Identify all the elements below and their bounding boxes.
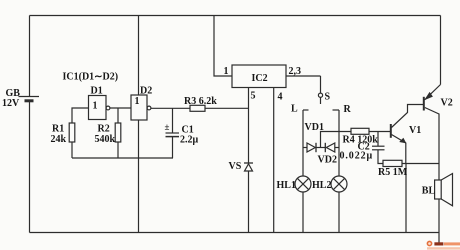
switch S [318,76,322,104]
wire below border watermark stub [438,233,440,246]
IC U2 box IC2 [232,65,286,88]
svg-text:0.022μ: 0.022μ [340,151,374,162]
diode VD2 [325,143,335,152]
wire VD left [303,147,307,149]
switch contact R [333,109,340,111]
transistor V1 [391,105,423,164]
wire R3 to pin5 [205,107,249,109]
wire R1 bottom [71,142,73,158]
wire D2 bottom to bottom border [138,120,140,233]
svg-text:HL2: HL2 [312,180,331,191]
resistor R1 [69,123,75,142]
wire D2 output [151,107,190,109]
svg-text:D2: D2 [140,86,152,97]
zener diode VS [244,163,253,171]
wire left border lower [29,101,31,233]
svg-text:R: R [344,104,352,115]
svg-text:VS: VS [229,161,242,172]
svg-text:S: S [325,92,331,103]
svg-text:2.2μ: 2.2μ [180,135,199,146]
svg-text:1: 1 [93,101,98,112]
svg-text:D1: D1 [91,86,103,97]
svg-text:L: L [291,104,298,115]
svg-text:IC2: IC2 [252,73,268,84]
resistor R2 [115,123,121,142]
wire IC2 pin1 [214,16,232,77]
wire C2 top [377,132,379,147]
resistor R5 [383,160,402,166]
svg-text:IC1(D1∼D2): IC1(D1∼D2) [63,72,119,83]
svg-text:HL1: HL1 [277,180,296,191]
svg-text:VD2: VD2 [318,155,337,166]
svg-text:R2: R2 [98,124,110,135]
lamp HL1 [295,176,311,192]
wire HL2 bottom [338,192,340,233]
svg-text:V1: V1 [409,125,421,136]
wire R2 bottom [117,142,119,158]
inverter gate D2 [131,95,151,120]
wire speaker to bottom [438,199,440,233]
wire D1 out to D2 in [110,107,131,109]
svg-text:V2: V2 [441,98,453,109]
svg-text:2,3: 2,3 [289,66,302,77]
wire R5 right to speaker line [402,163,439,165]
wire IC2 pin2,3 [286,75,321,77]
wire HL1 bottom [302,192,304,233]
wire top border [30,15,441,17]
switch contact L [303,109,309,111]
diode VD1 [307,143,316,152]
svg-text:1: 1 [135,96,140,107]
capacitor C1 [166,133,180,137]
wire emitter junction to bottom border [405,164,407,233]
lamp HL2 [331,176,347,192]
svg-text:12V: 12V [2,98,20,109]
wire D1 input [72,108,89,123]
wire R4 to V1 base [369,131,390,133]
wire left border upper [29,16,31,97]
wire bottom feedback rail [72,157,173,159]
transistor V2 [424,85,441,181]
wire R to HL2 [338,110,340,176]
wire C1 bottom [172,137,174,158]
svg-text:4: 4 [278,92,283,103]
resistor R4 [351,128,369,134]
wire VD right [335,147,339,149]
svg-text:VD1: VD1 [305,122,324,133]
speaker BL [435,174,453,206]
svg-text:5: 5 [251,91,256,102]
wire bottom border [30,232,440,234]
wire right border [440,16,442,85]
resistor R3 [190,105,205,111]
wire VD junction up [321,132,352,148]
wire L to HL1 [302,110,304,176]
wire C2 bottom [378,150,383,164]
inverter gate D1 [89,96,110,120]
wire top border to D2 top [138,16,140,96]
battery GB [19,97,40,101]
wire IC2 pin5 upper [248,88,250,164]
wire C1 top [172,108,174,133]
svg-text:1: 1 [224,66,229,77]
wire VD middle [316,147,325,149]
svg-text:24k: 24k [51,134,67,145]
wire IC2 pin4 [273,88,275,233]
wire VS to bottom border [248,171,250,233]
svg-text:R3 6.2k: R3 6.2k [184,96,217,107]
svg-text:±: ± [165,122,170,132]
svg-text:540k: 540k [95,134,116,145]
svg-text:R5 1M: R5 1M [378,167,408,178]
watermark logo [427,241,460,250]
svg-text:BL: BL [422,186,436,197]
capacitor C2 [372,146,385,150]
wire R2 top drop [117,108,119,123]
svg-text:R1: R1 [52,124,64,135]
